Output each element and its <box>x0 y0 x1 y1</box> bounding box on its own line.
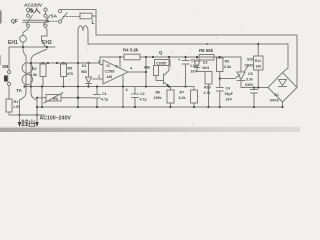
label 输出 <box>22 120 35 127</box>
svg-text:IC: IC <box>107 64 111 68</box>
svg-text:D2: D2 <box>203 61 208 65</box>
switch SB label <box>2 64 9 69</box>
breaker QF pole contacts <box>26 14 29 17</box>
transformer TA label <box>16 88 22 93</box>
diode D2 <box>197 57 209 72</box>
control bus y63 with junction dots <box>31 62 100 64</box>
op-amp U1 <box>103 60 128 84</box>
varistor RU <box>37 97 94 99</box>
wire bus tie <box>41 87 43 108</box>
transformer TA winding <box>22 63 32 73</box>
op-amp output wire <box>128 71 146 73</box>
svg-text:Q: Q <box>159 50 163 55</box>
svg-text:R6: R6 <box>156 91 161 95</box>
svg-text:R11: R11 <box>255 59 261 63</box>
resistor R11 <box>254 56 264 70</box>
svg-text:C1583: C1583 <box>105 70 115 74</box>
svg-text:TA: TA <box>16 88 22 93</box>
resistor R8 <box>199 55 214 61</box>
svg-text:C4: C4 <box>226 87 231 91</box>
resistor R10 <box>205 72 212 85</box>
svg-text:C5: C5 <box>248 72 253 76</box>
terminal left <box>26 8 29 11</box>
wires QF to heater bus <box>23 27 28 47</box>
svg-text:R9: R9 <box>225 60 230 64</box>
cathode rail y87 <box>241 87 268 89</box>
svg-text:3.3k: 3.3k <box>224 65 231 69</box>
svg-text:N24: N24 <box>203 66 210 70</box>
ground bus y107 <box>37 106 283 108</box>
switch SB <box>7 70 10 73</box>
svg-text:100: 100 <box>256 65 262 69</box>
primary wire left <box>20 49 27 116</box>
svg-text:R1: R1 <box>14 100 19 104</box>
svg-text:AC100~240V: AC100~240V <box>40 116 72 122</box>
switch SA label <box>51 14 58 19</box>
svg-text:33μF: 33μF <box>225 92 234 96</box>
capacitor C1 <box>96 87 98 108</box>
capacitor C4 <box>219 79 221 107</box>
resistor R4 <box>124 54 140 60</box>
op-amp pin3 stub <box>122 75 124 108</box>
transistor Q <box>159 50 163 55</box>
junction dots emitter node <box>168 85 170 87</box>
svg-text:3.3n: 3.3n <box>246 78 253 82</box>
junction dot SA link <box>47 20 49 22</box>
svg-text:R7: R7 <box>180 91 185 95</box>
svg-text:EH2: EH2 <box>42 40 52 46</box>
svg-text:RU: RU <box>53 97 59 101</box>
label AC100~240V <box>40 116 72 122</box>
svg-text:N478: N478 <box>270 99 279 103</box>
capacitor C2 <box>134 87 136 108</box>
scan edge band bottom <box>0 127 300 132</box>
bottom rail left <box>9 114 44 116</box>
svg-text:C1: C1 <box>102 92 107 96</box>
resistor R1 <box>6 99 12 112</box>
resistor R2 <box>42 63 44 87</box>
wire SA top to rail A <box>60 9 96 35</box>
svg-text:R10: R10 <box>204 86 211 90</box>
breaker QF link <box>23 18 48 26</box>
svg-text:CR03: CR03 <box>245 64 254 68</box>
svg-text:470: 470 <box>67 72 73 76</box>
bridge rectifier VC <box>268 73 297 103</box>
label AC220V <box>24 2 43 8</box>
svg-text:EH1: EH1 <box>8 40 18 46</box>
resistor R7 <box>191 90 198 103</box>
wire coil left vertical <box>77 31 79 107</box>
svg-text:D1: D1 <box>82 64 87 68</box>
wire fuse to vertical <box>92 15 96 17</box>
svg-text:R5: R5 <box>68 67 73 71</box>
switch SA <box>58 9 61 12</box>
svg-text:4.7k: 4.7k <box>204 91 211 95</box>
svg-text:630V: 630V <box>245 83 254 87</box>
breaker QF blades <box>27 15 51 24</box>
svg-text:SB: SB <box>2 64 9 69</box>
svg-text:C2: C2 <box>140 92 145 96</box>
coil L <box>78 26 88 31</box>
terminal right <box>44 8 47 11</box>
svg-text:4.7μ: 4.7μ <box>101 98 108 102</box>
wire terminal stubs <box>28 11 46 14</box>
op-amp pin5 stub <box>119 57 121 68</box>
op-amp input wires <box>100 64 103 66</box>
output arrow right <box>36 115 38 122</box>
svg-text:R2: R2 <box>32 67 37 71</box>
zener D1 <box>88 63 90 87</box>
svg-text:SA: SA <box>51 14 58 19</box>
svg-text:C1085: C1085 <box>156 61 166 65</box>
heater EH2 label <box>42 40 52 46</box>
fuse box <box>80 13 92 19</box>
capacitor C3 <box>185 57 187 87</box>
thyristor SCR <box>240 57 242 88</box>
svg-text:4.7μ: 4.7μ <box>140 98 147 102</box>
svg-text:68k: 68k <box>144 66 151 70</box>
input glyph 输入 <box>29 8 40 13</box>
svg-text:QF: QF <box>11 19 18 25</box>
output arrow left <box>19 115 21 122</box>
svg-text:R4 5.6k: R4 5.6k <box>123 48 139 53</box>
heater EH1 label <box>8 40 18 46</box>
svg-text:448: 448 <box>107 75 113 79</box>
junction dot rail B <box>206 43 208 45</box>
svg-text:3: 3 <box>126 88 128 92</box>
wire R1 to bottom rail <box>8 112 10 115</box>
svg-text:1: 1 <box>98 75 100 79</box>
svg-text:1.5k: 1.5k <box>13 105 20 109</box>
svg-text:16V: 16V <box>226 98 233 102</box>
svg-text:VC: VC <box>274 93 279 97</box>
wire coil right to rail B <box>87 31 89 44</box>
wire bridge bottom to bus <box>282 102 284 107</box>
coil L label <box>92 20 95 26</box>
heater bus <box>9 46 55 48</box>
wire heater bus left down to SB <box>8 47 10 70</box>
mid rail y86 <box>25 86 195 88</box>
primary wire right <box>31 49 47 115</box>
svg-text:16V: 16V <box>191 70 198 74</box>
svg-text:150k: 150k <box>154 96 162 100</box>
rail A top <box>96 35 297 88</box>
resistor 68k <box>154 66 159 76</box>
rail T y57 <box>100 57 241 65</box>
svg-text:AC220V: AC220V <box>24 2 43 8</box>
breaker QF label <box>11 19 18 25</box>
svg-text:8.2k: 8.2k <box>179 96 186 100</box>
svg-text:WD: WD <box>81 70 87 74</box>
wire SB to R1 <box>8 86 10 99</box>
capacitor C5 <box>253 88 255 108</box>
resistor R5 <box>63 63 65 87</box>
svg-text:5: 5 <box>116 65 118 69</box>
resistor R9 <box>217 58 224 72</box>
svg-text:3.9k: 3.9k <box>30 73 37 77</box>
svg-text:L: L <box>92 20 95 26</box>
resistor R6 <box>167 90 174 103</box>
svg-text:R8 68k: R8 68k <box>199 48 214 53</box>
rail B second <box>88 44 288 73</box>
